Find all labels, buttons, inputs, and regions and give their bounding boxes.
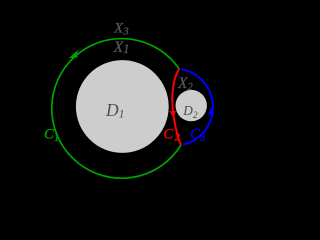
green arrowhead on C1 (stealth, pointing down-left) xyxy=(69,49,79,58)
disk D2 xyxy=(176,90,207,121)
wire: blue arc C3 (bulging right around D2) xyxy=(181,69,213,144)
wire: red arc C2 (bulging left between junctions) xyxy=(172,69,181,145)
disk D1 xyxy=(76,60,169,153)
wire: green contour C1 (major arc of big circle) xyxy=(52,39,181,179)
svg-text:X1: X1 xyxy=(113,39,130,56)
red arrowhead on C2 (stealth, pointing down) xyxy=(169,110,176,118)
blue arrowhead on C3 (stealth, pointing up) xyxy=(208,107,214,115)
